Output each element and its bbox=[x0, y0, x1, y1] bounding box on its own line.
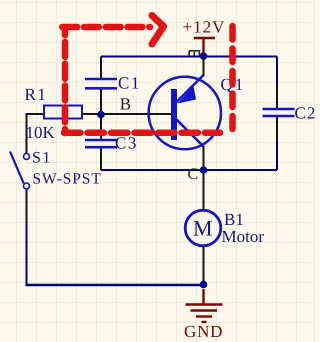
transistor Q1 body circle bbox=[149, 77, 221, 149]
red highlight: left dashed riser bbox=[62, 28, 69, 134]
switch S1 terminal top bbox=[24, 154, 30, 160]
resistor R1 bbox=[44, 106, 82, 119]
svg-text:S1: S1 bbox=[32, 150, 52, 167]
pin: C1 bottom pin to node B bbox=[100, 89, 102, 114]
svg-text:+12V: +12V bbox=[183, 18, 226, 37]
transistor Q1 emitter line (top) bbox=[177, 75, 204, 102]
pin: C3 top pin bbox=[100, 114, 102, 139]
wire: switch to bottom rail bbox=[26, 222, 28, 285]
pin: C2 top pin bbox=[276, 84, 278, 108]
wire: top rail from C1 branch to C2 branch bbox=[101, 56, 277, 58]
junction dot at node B bbox=[97, 111, 105, 119]
motor B1 circle bbox=[185, 210, 221, 246]
red highlight: right dashed riser bbox=[229, 26, 236, 129]
ground symbol bbox=[186, 289, 223, 322]
svg-text:C: C bbox=[188, 166, 199, 183]
switch S1 terminal bottom bbox=[24, 183, 30, 189]
transistor Q1 base bar bbox=[171, 89, 177, 140]
svg-text:C2: C2 bbox=[295, 104, 316, 123]
red highlight: top dashed run bbox=[61, 24, 150, 31]
svg-text:GND: GND bbox=[184, 322, 223, 341]
pin label E (rotated, at emitter top pin) bbox=[189, 51, 200, 58]
junction dot at +12V node bbox=[200, 52, 208, 60]
capacitor C2 bbox=[263, 109, 295, 116]
svg-text:SW-SPST: SW-SPST bbox=[33, 171, 102, 188]
pin: Q1 collector bottom lead bbox=[203, 146, 205, 170]
svg-text:M: M bbox=[193, 216, 213, 241]
switch S1 lever bbox=[10, 152, 24, 184]
svg-text:C3: C3 bbox=[115, 134, 138, 153]
pin: C3 bottom pin bbox=[100, 148, 102, 170]
svg-text:R1: R1 bbox=[25, 85, 48, 104]
junction dot at collector/motor node bbox=[200, 166, 208, 174]
wire: right branch upper (to C2) bbox=[276, 57, 278, 89]
wire: right branch lower (from C2) bbox=[276, 140, 278, 170]
svg-text:10K: 10K bbox=[26, 123, 56, 142]
svg-text:C1: C1 bbox=[118, 74, 141, 93]
transistor Q1 emitter arrow bbox=[178, 86, 197, 103]
pin: Q1 emitter top lead bbox=[203, 57, 205, 77]
svg-text:B: B bbox=[120, 95, 131, 114]
junction dot at ground node bbox=[200, 281, 208, 289]
red highlight: arrow head bbox=[152, 16, 164, 45]
pin: motor bottom lead bbox=[203, 246, 205, 285]
pin: switch bottom lead bbox=[26, 190, 28, 225]
wire: base wire R1 to Q1 bbox=[82, 113, 172, 115]
pin: C2 bottom pin bbox=[276, 117, 278, 141]
pin: C1 top pin bbox=[100, 57, 102, 79]
wire: R1 left lead and drop to switch bbox=[27, 114, 45, 153]
wire: bottom rail to motor foot bbox=[26, 284, 204, 287]
pin: motor top lead bbox=[203, 170, 205, 211]
power +12V bar symbol bbox=[194, 38, 215, 53]
transistor Q1 collector line (bottom) bbox=[177, 120, 204, 147]
svg-text:Motor: Motor bbox=[222, 227, 265, 246]
capacitor C3 bbox=[85, 140, 117, 147]
capacitor C1 bbox=[85, 79, 117, 88]
red highlight: bottom dashed run bbox=[64, 129, 220, 136]
wire: middle bottom rail bbox=[101, 169, 277, 171]
